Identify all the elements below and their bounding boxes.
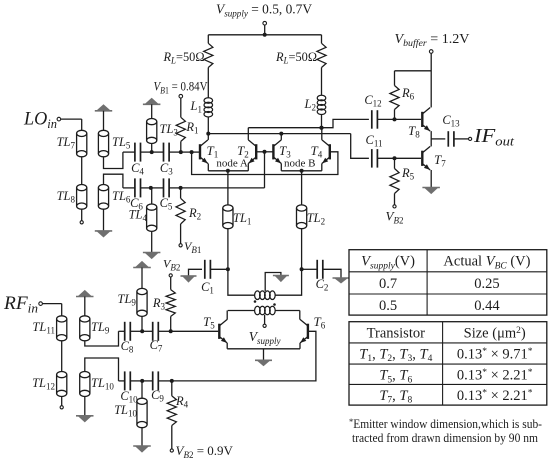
svg-text:0.5: 0.5 bbox=[379, 298, 397, 314]
svg-text:Actual VBC (V): Actual VBC (V) bbox=[443, 254, 530, 272]
svg-text:*Emitter window dimension,whic: *Emitter window dimension,which is sub- bbox=[349, 416, 542, 431]
svg-text:0.25: 0.25 bbox=[474, 276, 499, 292]
svg-text:0.13* × 2.21*: 0.13* × 2.21* bbox=[457, 388, 533, 404]
svg-text:node A: node A bbox=[216, 158, 248, 170]
svg-text:RL=50Ω: RL=50Ω bbox=[275, 50, 317, 66]
svg-text:node B: node B bbox=[284, 158, 315, 170]
svg-text:0.13* × 9.71*: 0.13* × 9.71* bbox=[457, 346, 533, 362]
svg-text:0.13* × 2.21*: 0.13* × 2.21* bbox=[457, 368, 533, 384]
svg-text:tracted from drawn dimension b: tracted from drawn dimension by 90 nm bbox=[352, 430, 538, 445]
svg-text:0.7: 0.7 bbox=[379, 276, 397, 292]
svg-text:0.44: 0.44 bbox=[474, 298, 500, 314]
svg-text:RL=50Ω: RL=50Ω bbox=[163, 50, 205, 66]
svg-text:Transistor: Transistor bbox=[367, 326, 425, 342]
